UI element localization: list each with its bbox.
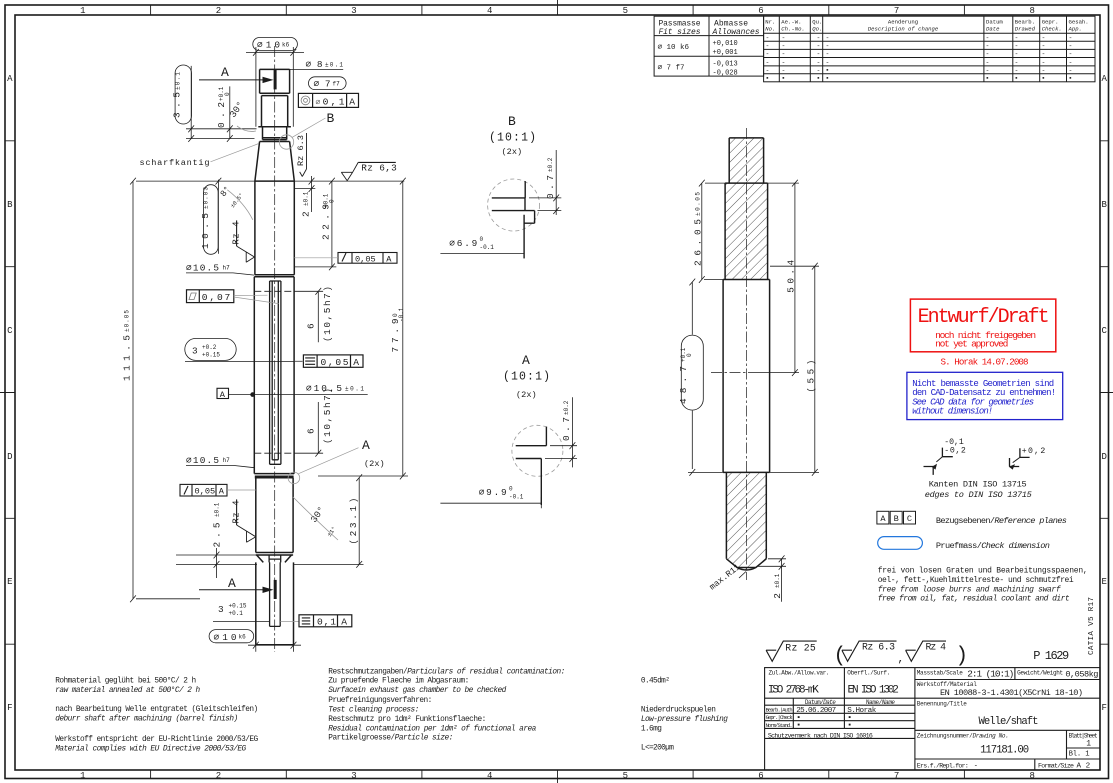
svg-text:free from oil, fat, residual c: free from oil, fat, residual coolant and… bbox=[878, 595, 1070, 604]
svg-text:6: 6 bbox=[758, 771, 763, 781]
dim 3.5 left bbox=[175, 65, 191, 124]
svg-text:Rz 6.3: Rz 6.3 bbox=[862, 642, 895, 653]
svg-text:+0,010: +0,010 bbox=[713, 40, 738, 48]
svg-text:4: 4 bbox=[487, 771, 492, 781]
svg-text:0,05: 0,05 bbox=[321, 357, 349, 368]
svg-text:Datum/Date: Datum/Date bbox=[805, 699, 836, 706]
svg-text:Test cleaning process:: Test cleaning process: bbox=[328, 707, 419, 715]
svg-text:Oberfl./Surf.: Oberfl./Surf. bbox=[847, 670, 890, 677]
svg-text:-: - bbox=[766, 51, 770, 58]
svg-text:Restschmutzangaben/Particulars: Restschmutzangaben/Particulars of residu… bbox=[328, 668, 565, 676]
svg-text:±0.05: ±0.05 bbox=[124, 310, 131, 332]
svg-text:Rz 25: Rz 25 bbox=[785, 643, 816, 654]
bottom middle notes bbox=[328, 668, 565, 742]
svg-text:Blatt|Sheet: Blatt|Sheet bbox=[1069, 732, 1098, 739]
svg-text:Gesah.: Gesah. bbox=[1069, 19, 1089, 26]
svg-text:A: A bbox=[341, 617, 347, 628]
svg-text:⌀ 7 f7: ⌀ 7 f7 bbox=[658, 65, 685, 73]
section A-A top bbox=[199, 79, 263, 81]
svg-text:Benennung/Title: Benennung/Title bbox=[917, 700, 967, 707]
svg-text:Rz 4: Rz 4 bbox=[926, 642, 947, 653]
svg-text:6: 6 bbox=[306, 428, 317, 434]
svg-text:B: B bbox=[894, 514, 899, 524]
svg-text:Rohmaterial geglüht bei 500°C/: Rohmaterial geglüht bei 500°C/ 2 h bbox=[55, 677, 196, 686]
svg-text:1: 1 bbox=[1086, 740, 1091, 749]
svg-text:scharfkantig: scharfkantig bbox=[140, 158, 210, 168]
svg-text:-: - bbox=[1042, 35, 1046, 42]
svg-text:3: 3 bbox=[351, 6, 356, 16]
svg-text:A: A bbox=[228, 576, 236, 591]
svg-text:-: - bbox=[1069, 59, 1073, 66]
surface roughness summary row bbox=[766, 641, 946, 661]
svg-text:Werkstoff entspricht der EU-Ri: Werkstoff entspricht der EU-Richtlinie 2… bbox=[55, 736, 258, 744]
svg-text:A: A bbox=[362, 438, 370, 453]
svg-text:⌀10: ⌀10 bbox=[214, 632, 237, 643]
svg-text:-: - bbox=[986, 35, 990, 42]
svg-text:D: D bbox=[7, 452, 12, 462]
svg-text:-: - bbox=[817, 43, 821, 50]
svg-text:B: B bbox=[1101, 200, 1107, 210]
svg-text:F: F bbox=[7, 703, 12, 713]
svg-text:4: 4 bbox=[487, 6, 492, 16]
svg-text:⌀ 10 k6: ⌀ 10 k6 bbox=[658, 44, 690, 52]
svg-text:±0.2: ±0.2 bbox=[547, 157, 554, 172]
dim 10.5 +-0.03 oval bbox=[204, 185, 219, 255]
svg-text:C: C bbox=[1101, 326, 1107, 336]
svg-text:Ch.-No.: Ch.-No. bbox=[781, 26, 805, 33]
svg-text:CATIA V5 R17: CATIA V5 R17 bbox=[1088, 597, 1096, 655]
svg-text:f7: f7 bbox=[333, 81, 341, 88]
svg-text:Qo.: Qo. bbox=[812, 26, 822, 33]
svg-text:0.2: 0.2 bbox=[216, 102, 227, 128]
svg-text:not yet approved: not yet approved bbox=[935, 338, 1008, 349]
svg-text:3: 3 bbox=[351, 771, 356, 781]
svg-text:0.7: 0.7 bbox=[545, 175, 556, 199]
svg-text:frei von losen Graten und Bear: frei von losen Graten und Bearbeitungssp… bbox=[878, 567, 1088, 576]
svg-text:7: 7 bbox=[894, 771, 899, 781]
svg-text:▪: ▪ bbox=[847, 722, 852, 730]
svg-text:-: - bbox=[974, 762, 978, 770]
svg-text:-: - bbox=[986, 59, 990, 66]
svg-text:-: - bbox=[1069, 35, 1073, 42]
svg-text:A: A bbox=[7, 74, 13, 84]
svg-text:-: - bbox=[766, 67, 770, 74]
svg-text:3: 3 bbox=[192, 345, 198, 356]
bottom left notes bbox=[55, 677, 258, 754]
svg-text:±0.03: ±0.03 bbox=[203, 187, 210, 209]
right extension at 181 bbox=[294, 181, 408, 476]
svg-text:A: A bbox=[349, 97, 355, 108]
svg-text:Pruefreinigungsverfahren:: Pruefreinigungsverfahren: bbox=[328, 697, 432, 705]
svg-text:A 2: A 2 bbox=[1077, 762, 1091, 770]
svg-text:-0.1: -0.1 bbox=[398, 307, 405, 322]
right: surface symbol Rz 6,3 bbox=[341, 162, 358, 180]
svg-text:▪: ▪ bbox=[796, 722, 801, 730]
detail A circle + label bbox=[288, 472, 300, 484]
svg-text:-0,2: -0,2 bbox=[944, 447, 966, 456]
svg-text:(2x): (2x) bbox=[516, 390, 537, 400]
svg-text:117181.00: 117181.00 bbox=[980, 745, 1029, 757]
detail B circle + label bbox=[279, 135, 293, 149]
svg-text:Norm/Stand.: Norm/Stand. bbox=[766, 723, 793, 729]
svg-text:(10:1): (10:1) bbox=[489, 132, 536, 145]
svg-text:Gewicht/Weight: Gewicht/Weight bbox=[1017, 670, 1063, 677]
revision table bbox=[764, 16, 1095, 82]
svg-text:0,1: 0,1 bbox=[317, 617, 336, 628]
svg-text:-: - bbox=[1042, 59, 1046, 66]
datum A box bbox=[217, 388, 229, 398]
svg-text:6: 6 bbox=[758, 6, 763, 16]
svg-text:L<=200µm: L<=200µm bbox=[641, 745, 674, 753]
oval 3 +0.2 bbox=[185, 338, 236, 360]
svg-text:+0,2: +0,2 bbox=[1022, 447, 1046, 456]
svg-text:2:1 (10:1): 2:1 (10:1) bbox=[967, 669, 1014, 680]
svg-text:(2x): (2x) bbox=[502, 147, 523, 157]
svg-text:-: - bbox=[1042, 43, 1046, 50]
svg-text:nach Bearbeitung Welle entgrat: nach Bearbeitung Welle entgratet (Gleits… bbox=[55, 706, 258, 714]
svg-text:(: ( bbox=[834, 645, 847, 668]
svg-text:±0.1: ±0.1 bbox=[302, 191, 309, 206]
svg-text:-: - bbox=[1042, 51, 1046, 58]
svg-text:±0.1: ±0.1 bbox=[325, 61, 343, 68]
svg-text:EN ISO 1302: EN ISO 1302 bbox=[848, 685, 899, 697]
svg-text:Partikelgroesse/Particle size:: Partikelgroesse/Particle size: bbox=[328, 735, 453, 743]
svg-text:Bl. 1: Bl. 1 bbox=[1069, 751, 1090, 759]
svg-text:A: A bbox=[220, 390, 226, 400]
svg-text:Drawed: Drawed bbox=[1015, 26, 1036, 33]
svg-text:Datum: Datum bbox=[986, 19, 1003, 26]
svg-text:-0.1: -0.1 bbox=[480, 244, 495, 251]
svg-text:-: - bbox=[1015, 59, 1019, 66]
svg-text:▪: ▪ bbox=[766, 75, 770, 82]
svg-text:-0,1: -0,1 bbox=[944, 438, 964, 447]
svg-text:0: 0 bbox=[480, 236, 484, 243]
svg-text:2: 2 bbox=[772, 593, 783, 599]
svg-text:-: - bbox=[766, 35, 770, 42]
svg-text:Check.: Check. bbox=[1042, 26, 1062, 33]
bottom dim line bbox=[248, 640, 301, 652]
svg-text:0: 0 bbox=[509, 485, 513, 492]
svg-text:h7: h7 bbox=[223, 265, 231, 272]
svg-text:▪: ▪ bbox=[1042, 75, 1046, 82]
svg-text:A: A bbox=[219, 487, 225, 497]
svg-text:⌀6.9: ⌀6.9 bbox=[449, 238, 477, 249]
svg-text:oel-, fett-,Kuehlmittelreste-: oel-, fett-,Kuehlmittelreste- und schmut… bbox=[878, 576, 1074, 585]
svg-text:Pruefmass/Check dimension: Pruefmass/Check dimension bbox=[936, 541, 1050, 551]
centerline bbox=[745, 128, 747, 580]
svg-text:C: C bbox=[907, 514, 912, 524]
svg-text:-: - bbox=[1015, 35, 1019, 42]
svg-text:2: 2 bbox=[216, 771, 221, 781]
svg-text:-: - bbox=[986, 43, 990, 50]
svg-text:Entwurf/Draft: Entwurf/Draft bbox=[918, 306, 1050, 329]
svg-text:P 1629: P 1629 bbox=[1033, 649, 1069, 663]
svg-text:deburr shaft after machining (: deburr shaft after machining (barrel fin… bbox=[55, 716, 238, 724]
svg-text:0: 0 bbox=[686, 353, 693, 357]
svg-text:A: A bbox=[353, 357, 359, 368]
svg-text:-: - bbox=[1015, 67, 1019, 74]
svg-text:Date: Date bbox=[986, 26, 1000, 33]
svg-text:Zu pruefende Flaeche im Abgasr: Zu pruefende Flaeche im Abgasraum: bbox=[328, 678, 469, 686]
flatness frame 0,07 bbox=[187, 290, 234, 303]
svg-text:6: 6 bbox=[306, 323, 317, 329]
svg-text:A: A bbox=[880, 514, 886, 524]
svg-text:⌀10.5: ⌀10.5 bbox=[186, 455, 219, 466]
dim 26.05 bbox=[699, 180, 725, 283]
svg-text:Ers.f./Repl.for:: Ers.f./Repl.for: bbox=[917, 762, 969, 769]
frame / 0,05 A lower-left bbox=[180, 484, 227, 496]
dim 2 +-0.1 bbox=[309, 176, 315, 212]
d7f7 oval bbox=[309, 77, 347, 90]
svg-text:Bezugsebenen/Reference planes: Bezugsebenen/Reference planes bbox=[936, 516, 1067, 526]
svg-text:EN 10088-3-1.4301(X5CrNi 18-10: EN 10088-3-1.4301(X5CrNi 18-10) bbox=[940, 688, 1083, 698]
svg-text:±0.2: ±0.2 bbox=[563, 400, 570, 415]
svg-text:-: - bbox=[1069, 43, 1073, 50]
position tolerance frame bbox=[298, 93, 358, 107]
svg-text:Name/Name: Name/Name bbox=[866, 699, 895, 706]
svg-text:A: A bbox=[386, 254, 392, 264]
svg-text:B: B bbox=[327, 111, 335, 126]
svg-text:-: - bbox=[1015, 51, 1019, 58]
svg-text:5: 5 bbox=[623, 6, 628, 16]
svg-text:(10:1): (10:1) bbox=[503, 371, 550, 384]
Rz6.3 rotated top bbox=[300, 133, 307, 177]
svg-text:+0.2: +0.2 bbox=[202, 344, 217, 351]
svg-text:25.06.2007: 25.06.2007 bbox=[796, 707, 836, 715]
svg-text:B: B bbox=[508, 114, 516, 129]
svg-text:▪: ▪ bbox=[1015, 75, 1019, 82]
svg-text:Welle/shaft: Welle/shaft bbox=[979, 716, 1039, 728]
svg-text:S. Horak 14.07.2008: S. Horak 14.07.2008 bbox=[941, 357, 1029, 368]
svg-text:Description of change: Description of change bbox=[868, 26, 939, 33]
svg-text:-0,013: -0,013 bbox=[713, 61, 738, 69]
svg-text:Schutzvermerk nach DIN ISO 160: Schutzvermerk nach DIN ISO 16016 bbox=[768, 733, 873, 740]
svg-text:±0.1: ±0.1 bbox=[175, 72, 182, 90]
title block bbox=[765, 668, 1100, 770]
svg-text:▪: ▪ bbox=[826, 75, 830, 82]
svg-text:No.: No. bbox=[765, 26, 775, 33]
svg-text:E: E bbox=[7, 577, 12, 587]
svg-text:0,05: 0,05 bbox=[355, 254, 376, 264]
svg-text:Zul.Abw./Allow.var.: Zul.Abw./Allow.var. bbox=[769, 670, 830, 677]
svg-text:-: - bbox=[826, 43, 830, 50]
oval d10k6 bottom bbox=[209, 630, 254, 643]
svg-text:Rz 6,3: Rz 6,3 bbox=[361, 163, 397, 174]
svg-text:2: 2 bbox=[216, 6, 221, 16]
svg-text:▪: ▪ bbox=[1069, 75, 1073, 82]
svg-text:,: , bbox=[898, 654, 905, 666]
svg-text:-: - bbox=[1015, 43, 1019, 50]
svg-text:Massstab/Scale: Massstab/Scale bbox=[917, 670, 963, 677]
svg-text:): ) bbox=[956, 645, 969, 668]
slot bottom bbox=[269, 555, 281, 626]
svg-text:Niederdruckspuelen: Niederdruckspuelen bbox=[641, 707, 716, 715]
svg-text:F: F bbox=[1101, 703, 1106, 713]
svg-text:Qu.: Qu. bbox=[812, 19, 822, 26]
svg-text:Rz 6.3: Rz 6.3 bbox=[296, 135, 306, 166]
svg-text:k6: k6 bbox=[282, 41, 290, 48]
oval d10k6 top bbox=[253, 38, 298, 51]
svg-text:▪: ▪ bbox=[817, 75, 821, 82]
svg-text:-: - bbox=[766, 59, 770, 66]
svg-text:3: 3 bbox=[218, 604, 224, 615]
slot mid bbox=[270, 281, 281, 464]
svg-text:Surfacein exhaust gas chamber: Surfacein exhaust gas chamber to be chec… bbox=[328, 687, 506, 695]
svg-text:-: - bbox=[766, 43, 770, 50]
svg-text:Aenderung: Aenderung bbox=[888, 19, 918, 26]
svg-text:-: - bbox=[817, 51, 821, 58]
svg-text:E: E bbox=[1101, 577, 1106, 587]
svg-text:D: D bbox=[1101, 452, 1106, 462]
svg-text:-: - bbox=[782, 51, 786, 58]
svg-text:⌀10.5: ⌀10.5 bbox=[186, 263, 219, 274]
CAD note box bbox=[907, 372, 1063, 419]
svg-text:0,058kg: 0,058kg bbox=[1065, 670, 1098, 680]
svg-text:-0.1: -0.1 bbox=[509, 493, 524, 500]
svg-text:Restschmutz pro 1dm² Funktions: Restschmutz pro 1dm² Funktionsflaeche: bbox=[328, 715, 486, 724]
reference planes bbox=[877, 511, 916, 524]
dashed flat lines bbox=[254, 291, 294, 453]
svg-text:-: - bbox=[782, 67, 786, 74]
svg-text:+0.15: +0.15 bbox=[202, 351, 220, 358]
centerline bbox=[274, 46, 276, 652]
svg-text:-: - bbox=[817, 67, 821, 74]
bottom right values bbox=[641, 677, 728, 753]
edge condition symbols bbox=[924, 448, 1030, 475]
svg-text:raw material annealed at 500°C: raw material annealed at 500°C/ 2 h bbox=[55, 686, 200, 695]
svg-text:(10,5h7): (10,5h7) bbox=[322, 388, 333, 444]
svg-text:-: - bbox=[782, 59, 786, 66]
svg-text:⌀9.9: ⌀9.9 bbox=[479, 487, 507, 498]
svg-text:-: - bbox=[782, 35, 786, 42]
svg-text:Gepr.: Gepr. bbox=[1042, 19, 1059, 26]
svg-text:-: - bbox=[986, 51, 990, 58]
dim 48.7 oval bbox=[681, 335, 703, 410]
svg-text:-: - bbox=[782, 43, 786, 50]
svg-text:Bearb.|Auth: Bearb.|Auth bbox=[766, 708, 793, 714]
svg-text:0,07: 0,07 bbox=[202, 292, 231, 303]
hatched areas bbox=[725, 138, 768, 280]
svg-text:▪: ▪ bbox=[986, 75, 990, 82]
fit size table bbox=[654, 16, 764, 76]
svg-text:7: 7 bbox=[894, 6, 899, 16]
svg-text:B: B bbox=[7, 200, 13, 210]
shaft outline top end bbox=[254, 69, 294, 644]
svg-text:-: - bbox=[826, 59, 830, 66]
svg-text:+0.1: +0.1 bbox=[229, 610, 244, 617]
dim 2 bottom bbox=[758, 555, 786, 601]
svg-text:(10,5h7): (10,5h7) bbox=[322, 286, 333, 342]
check dimension symbol bbox=[878, 537, 923, 550]
groove mid line + leader bbox=[185, 361, 303, 363]
svg-text:-: - bbox=[1069, 67, 1073, 74]
svg-text:5: 5 bbox=[623, 771, 628, 781]
svg-text:8: 8 bbox=[1029, 6, 1034, 16]
svg-text:▪: ▪ bbox=[782, 75, 786, 82]
svg-text:Fit sizes: Fit sizes bbox=[659, 28, 701, 37]
dim 111.5 bbox=[130, 178, 255, 603]
svg-text:Residual contamination per 1dm: Residual contamination per 1dm² of funct… bbox=[328, 724, 536, 733]
svg-text:Kanten DIN ISO 13715: Kanten DIN ISO 13715 bbox=[929, 480, 1027, 490]
svg-text:-: - bbox=[1069, 51, 1073, 58]
dim (55) bbox=[766, 263, 819, 476]
svg-text:without dimension!: without dimension! bbox=[912, 407, 993, 417]
svg-text:A: A bbox=[1101, 74, 1107, 84]
svg-text:0.7: 0.7 bbox=[561, 417, 572, 441]
d8 label bbox=[290, 68, 344, 70]
svg-text:-: - bbox=[826, 51, 830, 58]
svg-text:Gepr.|Check: Gepr.|Check bbox=[766, 715, 793, 721]
svg-text:-: - bbox=[986, 67, 990, 74]
svg-text:+0.15: +0.15 bbox=[229, 603, 247, 610]
dim 22.9 bbox=[329, 178, 335, 271]
frame / 0,05 A upper-right bbox=[338, 253, 397, 264]
svg-text:h7: h7 bbox=[223, 457, 231, 464]
dim 10 top bbox=[246, 47, 304, 127]
svg-text:A: A bbox=[522, 353, 530, 368]
svg-text:-: - bbox=[1042, 67, 1046, 74]
outline bbox=[723, 138, 770, 570]
svg-text:2.5: 2.5 bbox=[212, 522, 223, 547]
dim 50.4 bbox=[752, 180, 799, 376]
svg-text:Allowances: Allowances bbox=[712, 28, 760, 37]
svg-text:±0.1: ±0.1 bbox=[774, 573, 781, 588]
svg-text:⌀0,1: ⌀0,1 bbox=[316, 97, 345, 108]
svg-text:Ae.-W.: Ae.-W. bbox=[781, 19, 801, 26]
svg-text:0,05: 0,05 bbox=[195, 487, 216, 497]
svg-text:App.: App. bbox=[1068, 26, 1082, 33]
svg-text:0.45dm²: 0.45dm² bbox=[641, 677, 670, 686]
frame = 0,1 A bottom bbox=[299, 615, 352, 627]
svg-text:±0.1: ±0.1 bbox=[214, 502, 221, 517]
svg-text:+0,001: +0,001 bbox=[713, 49, 738, 57]
svg-text:-0,028: -0,028 bbox=[713, 70, 738, 78]
svg-text:Format/Size: Format/Size bbox=[1038, 762, 1074, 769]
burr free note bbox=[878, 567, 1088, 604]
svg-text:Bearb.: Bearb. bbox=[1015, 19, 1035, 26]
svg-text:Nr.: Nr. bbox=[765, 19, 775, 26]
svg-text:edges to DIN ISO 13715: edges to DIN ISO 13715 bbox=[925, 490, 1032, 500]
section A-A bottom bbox=[199, 589, 263, 591]
svg-text:8: 8 bbox=[1029, 771, 1034, 781]
svg-text:Low-pressure flushing: Low-pressure flushing bbox=[641, 716, 728, 724]
svg-text:A: A bbox=[221, 65, 229, 80]
frame = 0,05 A mid bbox=[303, 355, 363, 367]
svg-text:0: 0 bbox=[329, 199, 336, 203]
svg-text:Material complies with EU Dire: Material complies with EU Directive 2000… bbox=[55, 746, 246, 754]
svg-text:-: - bbox=[826, 35, 830, 42]
svg-text:(2x): (2x) bbox=[364, 459, 385, 469]
draft stamp bbox=[910, 299, 1055, 367]
svg-text:free from loose burrs and mach: free from loose burrs and machining swar… bbox=[878, 585, 1061, 594]
svg-text:⌀10: ⌀10 bbox=[257, 40, 280, 51]
svg-text:1: 1 bbox=[80, 6, 85, 16]
svg-text:C: C bbox=[7, 326, 13, 336]
svg-text:1.6mg: 1.6mg bbox=[641, 725, 662, 733]
svg-text:1: 1 bbox=[80, 771, 85, 781]
svg-text:k6: k6 bbox=[239, 634, 247, 641]
svg-text:-: - bbox=[817, 59, 821, 66]
dim 77.9 bbox=[400, 178, 406, 480]
svg-text:-: - bbox=[817, 35, 821, 42]
svg-text:±0.1: ±0.1 bbox=[345, 385, 364, 392]
svg-text:▪: ▪ bbox=[826, 67, 830, 74]
svg-text:Zeichnungsnummer/Drawing No.: Zeichnungsnummer/Drawing No. bbox=[917, 732, 1009, 739]
svg-text:ISO 2768-mK: ISO 2768-mK bbox=[768, 685, 819, 697]
svg-text:3.5: 3.5 bbox=[172, 92, 183, 118]
svg-text:2: 2 bbox=[300, 211, 311, 217]
